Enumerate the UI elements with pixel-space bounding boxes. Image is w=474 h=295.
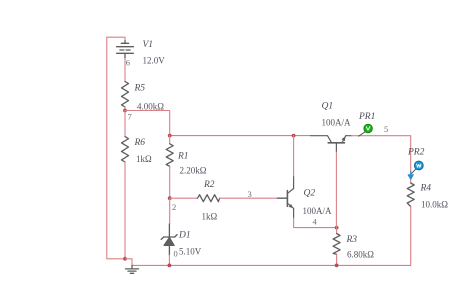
junction bottom left	[123, 257, 127, 261]
junction D1 bottom	[168, 264, 172, 268]
svg-text:D1: D1	[178, 231, 191, 241]
battery V1	[117, 41, 134, 59]
svg-text:2.20kΩ: 2.20kΩ	[180, 166, 207, 176]
ground	[126, 265, 139, 273]
svg-text:Q2: Q2	[304, 189, 316, 199]
wire R6 bottom	[124, 162, 126, 259]
svg-text:0: 0	[174, 249, 178, 259]
svg-text:12.0V: 12.0V	[143, 56, 166, 66]
resistor R2	[198, 195, 220, 202]
junction node 4	[335, 226, 339, 230]
svg-text:2: 2	[172, 202, 176, 212]
svg-text:7: 7	[128, 112, 132, 122]
wire top battery to left	[107, 37, 125, 41]
svg-text:100A/A: 100A/A	[322, 118, 352, 128]
svg-text:1kΩ: 1kΩ	[136, 154, 152, 164]
transistor Q2	[287, 176, 293, 218]
svg-text:R5: R5	[134, 84, 146, 94]
wire node7 to rail corner	[125, 111, 170, 136]
node 2 junction	[168, 196, 172, 200]
wire jog to ground corner	[125, 259, 132, 266]
resistor R4	[407, 183, 414, 207]
svg-text:1kΩ: 1kΩ	[202, 212, 218, 222]
Q2 base pin	[278, 197, 288, 199]
svg-text:6: 6	[126, 58, 130, 68]
svg-text:4.00kΩ: 4.00kΩ	[137, 101, 164, 111]
node 7 junction	[123, 109, 127, 113]
probe PR1	[359, 124, 373, 136]
svg-text:6.80kΩ: 6.80kΩ	[347, 250, 374, 260]
wire left vertical	[107, 37, 125, 259]
svg-text:R1: R1	[177, 152, 189, 162]
probe PR2	[411, 161, 423, 174]
wire Q1 emitter to right column	[352, 136, 411, 183]
junction rail-Q2 collector	[292, 134, 296, 138]
probe PR2 current arrow	[408, 171, 413, 179]
wire Q2 emitter down and right	[294, 218, 337, 228]
svg-text:PR2: PR2	[407, 148, 425, 158]
resistor R1	[169, 136, 171, 144]
bottom rail	[132, 264, 411, 266]
svg-text:R6: R6	[134, 138, 146, 148]
resistor R3	[333, 234, 340, 255]
wire R4 to bottom rail	[410, 207, 412, 266]
junction R3 bottom	[335, 264, 339, 268]
transistor Q1	[311, 136, 352, 152]
svg-text:R3: R3	[346, 235, 358, 245]
wire R2 to Q2 base	[220, 197, 278, 199]
junction rail-R1	[168, 134, 172, 138]
svg-text:R2: R2	[203, 180, 215, 190]
zener diode D1	[161, 224, 177, 255]
middle rail	[170, 135, 311, 137]
svg-text:100A/A: 100A/A	[303, 206, 333, 216]
svg-text:3: 3	[248, 189, 252, 199]
svg-text:R4: R4	[420, 184, 432, 194]
resistor R6	[122, 137, 129, 162]
resistor R5	[122, 82, 129, 108]
wire node2 to R2	[170, 197, 198, 199]
svg-text:Q1: Q1	[322, 102, 334, 112]
svg-text:PR1: PR1	[358, 112, 375, 122]
svg-text:V1: V1	[143, 40, 154, 50]
svg-text:5.10V: 5.10V	[179, 247, 202, 257]
wire Q1 base down	[335, 152, 337, 228]
wire node2 to D1	[169, 198, 171, 224]
wire node4 to R3	[336, 228, 338, 234]
svg-text:5: 5	[384, 124, 388, 134]
wire Q2 collector up	[293, 136, 295, 176]
wire R5 to R6	[124, 111, 126, 137]
wire battery to R5	[124, 59, 126, 82]
svg-text:10.0kΩ: 10.0kΩ	[421, 200, 448, 210]
